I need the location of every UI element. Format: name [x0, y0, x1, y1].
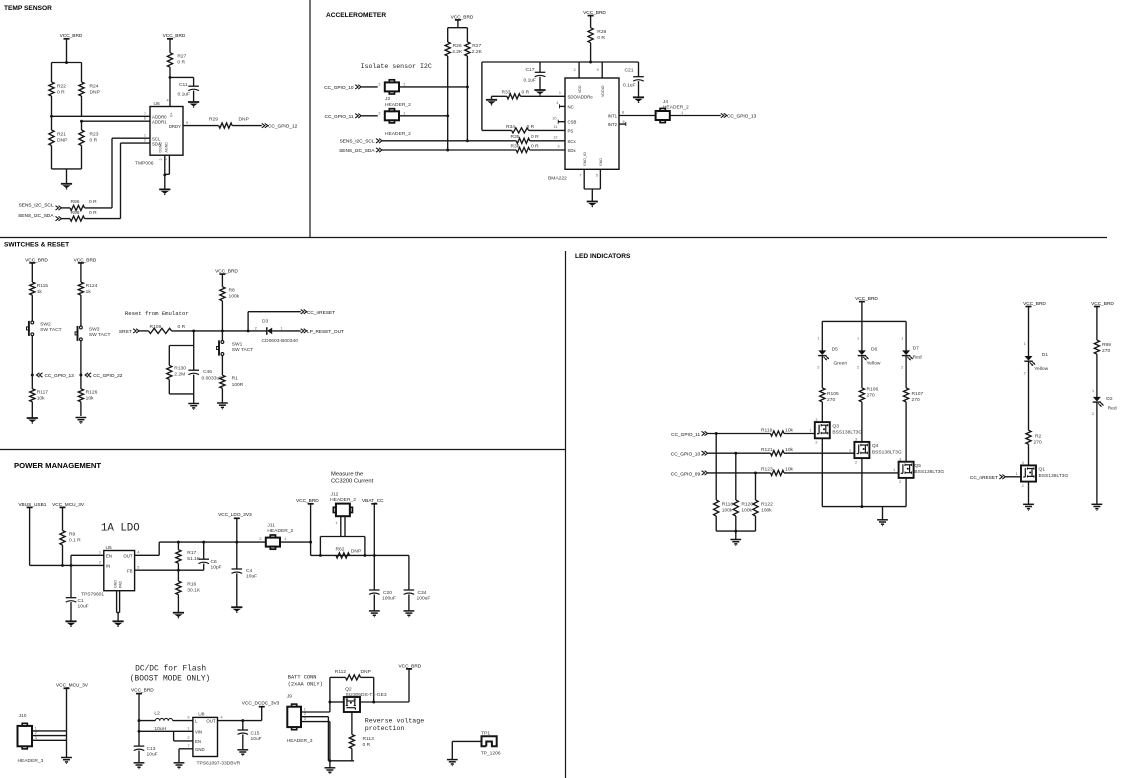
wire U8 OUT — [218, 719, 262, 722]
svg-text:2: 2 — [144, 139, 146, 143]
wire D3 to port — [272, 330, 301, 332]
svg-text:(2xAA ONLY): (2xAA ONLY) — [288, 682, 323, 688]
svg-text:1: 1 — [99, 551, 101, 555]
svg-text:HEADER_3: HEADER_3 — [287, 738, 313, 744]
svg-text:R106: R106 — [867, 387, 879, 393]
svg-text:0 R: 0 R — [522, 90, 530, 96]
wire SCL to U6 — [112, 138, 150, 208]
svg-text:6: 6 — [623, 120, 625, 124]
wire gate row 1 — [708, 432, 771, 435]
svg-text:VCC_BRD: VCC_BRD — [296, 498, 319, 504]
svg-text:0 R: 0 R — [531, 134, 539, 140]
wire VCC_LDO rail — [159, 541, 266, 544]
wire VDD top bus — [482, 61, 639, 63]
ground (R16) — [173, 613, 184, 619]
svg-text:270: 270 — [867, 393, 875, 399]
svg-text:C1: C1 — [78, 598, 85, 604]
svg-text:D7: D7 — [913, 345, 920, 351]
transistor Q1 BSS138LT3G — [1021, 461, 1069, 488]
svg-text:PAD: PAD — [119, 580, 123, 588]
section divider: horizontal line under top sections — [0, 237, 1107, 239]
svg-text:VCC_BRD: VCC_BRD — [131, 687, 154, 693]
svg-text:R36: R36 — [511, 143, 520, 149]
svg-text:J12: J12 — [331, 492, 339, 498]
svg-text:U5: U5 — [106, 545, 113, 551]
resistor R98 — [62, 210, 121, 221]
label TPS61097-33DBVR — [197, 761, 241, 767]
svg-text:VCC_BRD: VCC_BRD — [451, 14, 474, 20]
svg-text:10pF: 10pF — [211, 565, 222, 571]
svg-text:11: 11 — [554, 125, 558, 129]
svg-text:1: 1 — [893, 468, 895, 472]
label J10 HEADER_3 — [18, 758, 44, 764]
port SRST — [119, 329, 139, 335]
svg-text:Isolate sensor I2C: Isolate sensor I2C — [361, 63, 432, 70]
svg-text:TP_1206: TP_1206 — [481, 751, 501, 757]
wire LED top bus — [822, 320, 906, 322]
svg-text:HEADER_3: HEADER_3 — [18, 758, 44, 764]
resistor R62 — [336, 546, 362, 558]
resistor R112 — [335, 669, 371, 680]
wire to D5 — [817, 321, 822, 350]
svg-text:R9: R9 — [69, 531, 76, 537]
svg-text:CD0603-B00340: CD0603-B00340 — [262, 338, 299, 344]
wire R99 to D2 — [1092, 354, 1097, 397]
svg-text:Q4: Q4 — [872, 443, 879, 449]
port SENS_I2C_SCL (accel) — [340, 139, 382, 145]
svg-text:C20: C20 — [383, 590, 392, 596]
label TMP006 — [135, 161, 154, 167]
capacitor C46 — [188, 369, 222, 382]
wire J9 pin 3 — [301, 717, 330, 722]
svg-text:VCC_BRD: VCC_BRD — [74, 257, 97, 263]
svg-text:BSS138LT3G: BSS138LT3G — [1039, 473, 1069, 479]
wire to D7 — [901, 321, 906, 350]
wire to Q1 gate — [1006, 472, 1021, 477]
svg-text:EN: EN — [106, 553, 112, 558]
svg-text:SRST: SRST — [119, 329, 132, 335]
svg-text:R21: R21 — [57, 132, 66, 138]
svg-text:2: 2 — [255, 326, 257, 330]
wire J3 to SDA pullup — [399, 115, 448, 117]
capacitor C17 — [524, 67, 546, 83]
power flag VCC_BRD (LDO out) — [296, 498, 319, 556]
svg-text:R17: R17 — [187, 550, 196, 556]
svg-text:PS: PS — [568, 128, 574, 133]
svg-text:4: 4 — [556, 101, 558, 105]
wire C46 to gnd — [193, 375, 195, 404]
svg-text:J2: J2 — [385, 96, 390, 102]
svg-text:1: 1 — [849, 448, 851, 452]
resistor R126 — [78, 389, 97, 416]
svg-text:SW TACT: SW TACT — [40, 327, 62, 333]
wire SCL bus — [382, 140, 516, 142]
svg-text:1: 1 — [817, 337, 819, 341]
resistor R117 — [30, 389, 49, 418]
svg-text:2: 2 — [855, 460, 857, 464]
svg-text:R23: R23 — [90, 132, 99, 138]
wire J4 to port — [670, 115, 721, 117]
svg-text:R122: R122 — [761, 501, 773, 507]
wire SW1 to R1 — [221, 355, 223, 375]
svg-text:1: 1 — [559, 91, 561, 95]
wire to C11 — [170, 77, 194, 86]
label J3 HEADER_2 — [385, 131, 411, 137]
svg-text:100uF: 100uF — [382, 595, 396, 601]
wire Q2 gate down — [351, 713, 353, 735]
power flag VCC_BRD (I2C pullups) — [451, 14, 474, 27]
transistor Q2 SI2305DS-T1-GE3 — [344, 686, 387, 712]
svg-text:R98: R98 — [71, 210, 80, 216]
note Reverse voltage protection — [365, 717, 424, 732]
svg-text:100k: 100k — [722, 507, 733, 513]
wire pulldown bus — [716, 530, 755, 533]
IC U7 BMA222 accelerometer — [552, 62, 626, 189]
svg-text:0 R: 0 R — [89, 199, 97, 205]
svg-text:Measure the: Measure the — [331, 471, 363, 477]
svg-text:R24: R24 — [90, 84, 99, 90]
svg-text:BSS138LT3G: BSS138LT3G — [832, 430, 862, 436]
svg-text:D5: D5 — [832, 346, 839, 352]
svg-text:2.2K: 2.2K — [472, 49, 483, 55]
wire LED bottom bus — [822, 505, 906, 508]
resistor R27 (accel) — [465, 28, 483, 143]
ground (C11) — [188, 102, 199, 108]
header J4 — [656, 108, 684, 122]
svg-text:GND: GND — [599, 158, 603, 166]
svg-text:2: 2 — [573, 68, 575, 72]
ground (C1) — [65, 621, 76, 627]
svg-text:CC_GPIO_22: CC_GPIO_22 — [93, 373, 123, 379]
svg-text:R35: R35 — [511, 134, 520, 140]
svg-text:1: 1 — [403, 82, 405, 86]
wire to J2 — [362, 86, 378, 88]
svg-text:2: 2 — [187, 736, 189, 740]
svg-text:100R: 100R — [232, 382, 244, 388]
capacitor C1 — [66, 598, 89, 610]
svg-text:2: 2 — [899, 480, 901, 484]
svg-text:Q2: Q2 — [345, 686, 352, 692]
svg-text:R120: R120 — [741, 501, 753, 507]
svg-text:LED INDICATORS: LED INDICATORS — [575, 253, 631, 260]
wire to C1 — [70, 565, 72, 597]
svg-text:R27: R27 — [177, 54, 186, 60]
resistor R27 — [167, 53, 186, 107]
svg-text:3: 3 — [304, 717, 306, 721]
wire Q5 source to bus — [905, 478, 907, 507]
svg-text:1: 1 — [809, 429, 811, 433]
svg-text:ADDR1: ADDR1 — [152, 120, 167, 125]
svg-text:270: 270 — [912, 397, 920, 403]
svg-text:0 R: 0 R — [527, 124, 535, 130]
svg-text:CC_GPIO_10: CC_GPIO_10 — [324, 85, 354, 91]
resistor R34 — [506, 124, 535, 133]
resistor R24 — [79, 63, 100, 117]
test point TP1 TP_1206 — [481, 730, 501, 756]
svg-text:10k: 10k — [86, 395, 94, 401]
svg-text:R34: R34 — [506, 124, 515, 130]
transistor Q3 BSS138LT3G — [815, 418, 863, 445]
label J12 HEADER_2 — [330, 492, 356, 504]
svg-text:protection: protection — [365, 725, 405, 732]
svg-text:OUT: OUT — [206, 719, 215, 724]
svg-text:R130: R130 — [174, 365, 186, 371]
wire TP1 to gnd — [452, 741, 481, 759]
wire to R112 — [330, 676, 346, 678]
svg-text:4: 4 — [167, 99, 169, 103]
port SENS_I2C_SDA (temp) — [18, 213, 61, 221]
port CC_GPIO_13 — [721, 113, 757, 119]
svg-text:SW2: SW2 — [40, 321, 51, 327]
header J9 — [287, 704, 301, 730]
capacitor C21 — [623, 68, 644, 89]
svg-text:DGND: DGND — [159, 142, 163, 153]
wire U5 gnd pad — [117, 591, 120, 622]
wire Q4 source to bus — [861, 458, 863, 507]
svg-text:0 R: 0 R — [90, 138, 98, 144]
wire U5 OUT — [135, 542, 160, 555]
resistor R113 — [349, 735, 374, 749]
svg-text:R2: R2 — [1035, 433, 1042, 439]
svg-text:7: 7 — [187, 744, 189, 748]
svg-text:INT1: INT1 — [608, 114, 618, 119]
label J11 HEADER_2 — [267, 523, 293, 535]
resistor R29 — [209, 117, 249, 129]
wire R2 to Q1 — [1028, 444, 1030, 465]
power flag VCC_BRD (temp sensor divider) — [60, 33, 83, 62]
capacitor C20 — [369, 590, 396, 602]
wire R130 top — [169, 346, 193, 366]
wire node to SW1 — [221, 331, 223, 341]
svg-text:R8: R8 — [229, 287, 236, 293]
svg-text:R28: R28 — [597, 29, 606, 35]
wire R113 to bus — [351, 749, 353, 761]
svg-text:VCC_BRD: VCC_BRD — [163, 33, 186, 39]
svg-text:7: 7 — [144, 112, 146, 116]
resistor R23 — [79, 121, 99, 169]
svg-text:SDx: SDx — [568, 148, 577, 153]
ground (temp divider) — [61, 184, 72, 190]
svg-text:C34: C34 — [418, 590, 427, 596]
wire J10 pin 1 — [32, 726, 67, 731]
svg-text:SWITCHES & RESET: SWITCHES & RESET — [4, 242, 69, 249]
svg-text:100uF: 100uF — [417, 595, 431, 601]
svg-text:VCC_MCU_3V: VCC_MCU_3V — [52, 502, 85, 508]
svg-text:VCC_MCU_3V: VCC_MCU_3V — [56, 683, 89, 689]
svg-text:HEADER_2: HEADER_2 — [385, 102, 411, 108]
svg-text:1: 1 — [1016, 472, 1018, 476]
LED D7 Red — [901, 345, 922, 369]
svg-text:0 R: 0 R — [363, 742, 371, 748]
svg-text:V+: V+ — [170, 113, 174, 118]
svg-text:ACCELEROMETER: ACCELEROMETER — [326, 12, 386, 19]
label J10 — [19, 713, 27, 719]
wire J10 pin 3 — [32, 736, 67, 741]
svg-text:R126: R126 — [86, 389, 98, 395]
power flag VCC_BRD (reset pullup) — [215, 269, 238, 287]
port CC_GPIO_10 (LED) — [671, 451, 708, 458]
ground (C17) — [534, 90, 545, 96]
wire to C6 — [203, 542, 205, 559]
LED D5 Green — [817, 346, 847, 369]
header J2 — [378, 80, 405, 94]
svg-text:1: 1 — [681, 111, 683, 115]
wire to U5 IN — [63, 564, 104, 567]
svg-text:EN: EN — [195, 739, 201, 744]
svg-text:Green: Green — [834, 360, 848, 366]
section divider: vertical line between TEMP SENSOR and ACCELEROMETER — [309, 0, 311, 238]
svg-text:BSS138LT3G: BSS138LT3G — [914, 469, 944, 475]
svg-text:INT2: INT2 — [608, 122, 618, 127]
wire to D6 — [857, 321, 862, 350]
svg-text:2: 2 — [817, 366, 819, 370]
wire to C34 — [408, 555, 410, 590]
svg-text:R105: R105 — [827, 391, 839, 397]
svg-text:VBAT_CC: VBAT_CC — [362, 498, 384, 504]
port CC_nRESET (Q1 gate) — [970, 475, 1005, 481]
svg-text:SW1: SW1 — [232, 341, 243, 347]
wire R1 to gnd — [221, 388, 223, 403]
svg-text:CC_GPIO_09: CC_GPIO_09 — [671, 471, 701, 477]
port CC_GPIO_22 (SW3) — [85, 373, 123, 379]
svg-text:R29: R29 — [209, 117, 218, 123]
resistor R115 — [30, 282, 49, 321]
wire R105 to Q3 — [821, 402, 823, 422]
wire C4 to gnd — [236, 573, 238, 607]
svg-text:5: 5 — [596, 174, 598, 178]
svg-text:1A LDO: 1A LDO — [101, 523, 140, 535]
label J9 — [287, 693, 292, 699]
wire R106 to Q4 — [861, 402, 863, 442]
svg-text:R121: R121 — [761, 447, 773, 453]
svg-text:SCx: SCx — [568, 139, 577, 144]
svg-text:2: 2 — [378, 82, 380, 86]
switch SW1 — [217, 340, 254, 355]
svg-text:0.1uF: 0.1uF — [178, 92, 191, 98]
ground (C21) — [633, 97, 644, 103]
svg-text:C13: C13 — [147, 746, 156, 752]
svg-text:1k: 1k — [86, 289, 92, 295]
resistor R9 — [60, 531, 81, 567]
wire node to C46 — [193, 331, 195, 370]
wire C15 to gnd — [242, 734, 244, 749]
svg-text:2: 2 — [815, 441, 817, 445]
svg-text:HEADER_2: HEADER_2 — [267, 528, 293, 534]
wire R121 to Q4 gate — [784, 448, 854, 453]
svg-text:BSS138LT3G: BSS138LT3G — [872, 449, 902, 455]
svg-text:DC/DC for Flash: DC/DC for Flash — [135, 664, 206, 673]
ground (C13) — [134, 763, 145, 769]
note Measure the CC3200 Current — [331, 471, 374, 484]
wire R123 to Q5 gate — [784, 468, 899, 473]
svg-text:C21: C21 — [625, 68, 634, 74]
resistor R120 — [733, 453, 753, 531]
svg-text:0.1uF: 0.1uF — [524, 78, 537, 84]
wire D5 to R105 — [821, 356, 823, 388]
svg-text:3: 3 — [35, 736, 37, 740]
svg-text:GND: GND — [114, 580, 118, 588]
ground (C34) — [404, 611, 415, 617]
wire to Q2 — [330, 701, 344, 703]
wire J10 pin 2 — [32, 731, 67, 736]
transistor Q4 BSS138LT3G — [854, 438, 902, 465]
capacitor C11 — [178, 82, 199, 98]
LED D2 Red — [1092, 396, 1117, 416]
label J9 HEADER_3 — [287, 738, 313, 744]
svg-text:R115: R115 — [37, 283, 49, 289]
svg-text:2.2M: 2.2M — [174, 371, 185, 377]
note Reset from Emulator — [125, 310, 189, 317]
svg-text:10k: 10k — [785, 427, 793, 433]
wire VIN — [174, 726, 193, 731]
section divider: horizontal line above POWER MANAGEMENT — [0, 449, 566, 451]
wire SDA bus — [382, 149, 516, 151]
svg-text:4: 4 — [137, 551, 139, 555]
resistor R122 — [753, 473, 773, 531]
svg-text:0 R: 0 R — [57, 90, 65, 96]
switch SW2 — [27, 321, 62, 336]
svg-text:R109: R109 — [150, 324, 162, 330]
wire EN — [174, 736, 193, 741]
svg-text:R62: R62 — [336, 546, 345, 552]
svg-text:2.2K: 2.2K — [452, 49, 463, 55]
svg-text:R96: R96 — [71, 199, 80, 205]
wire bus to C17 — [539, 62, 541, 72]
power flag VCC_BRD (battery) — [399, 663, 422, 702]
ground (J10) — [61, 758, 72, 764]
wire VIN/EN tie — [139, 731, 174, 741]
wire U8 GND — [179, 749, 193, 763]
svg-text:TPS79601: TPS79601 — [81, 592, 104, 598]
ground (Q1) — [1023, 504, 1034, 510]
power flag VCC_LDO_3V3 — [218, 512, 252, 542]
svg-text:7: 7 — [579, 174, 581, 178]
svg-text:R119: R119 — [761, 427, 773, 433]
svg-text:R99: R99 — [1102, 342, 1111, 348]
wire reset node — [172, 329, 267, 332]
svg-text:J10: J10 — [19, 713, 27, 719]
svg-text:R33: R33 — [502, 90, 511, 96]
svg-text:DNP: DNP — [239, 117, 249, 123]
svg-text:Q5: Q5 — [914, 463, 921, 469]
svg-text:CC_GPIO_12: CC_GPIO_12 — [268, 124, 298, 130]
svg-text:C17: C17 — [526, 67, 535, 73]
svg-text:10uF: 10uF — [147, 751, 158, 757]
svg-text:1: 1 — [1092, 389, 1094, 393]
ground (C20) — [369, 611, 380, 617]
wire shunt bottom — [311, 554, 409, 557]
wire to C15 — [242, 721, 244, 730]
svg-text:Q3: Q3 — [832, 423, 839, 429]
power flag VCC_BRD (D2) — [1091, 301, 1114, 340]
svg-text:C6: C6 — [211, 559, 218, 565]
resistor R16 — [176, 570, 201, 613]
power flag VCC_DCDC_3V3 — [242, 701, 280, 721]
resistor R33 — [502, 90, 530, 99]
svg-text:2: 2 — [378, 111, 380, 115]
svg-text:CC_GPIO_11: CC_GPIO_11 — [671, 432, 700, 438]
svg-text:3: 3 — [855, 438, 857, 442]
svg-text:C46: C46 — [203, 369, 212, 375]
wire SRST — [139, 330, 148, 332]
wire C20 to gnd — [373, 594, 375, 611]
ground (U8) — [174, 763, 185, 769]
ground (SW3) — [76, 418, 87, 424]
svg-text:CC_nRESET: CC_nRESET — [307, 310, 335, 316]
svg-text:POWER MANAGEMENT: POWER MANAGEMENT — [14, 461, 101, 470]
wire J2 to SCL pullup — [399, 86, 467, 88]
section title LED INDICATORS — [575, 253, 631, 260]
